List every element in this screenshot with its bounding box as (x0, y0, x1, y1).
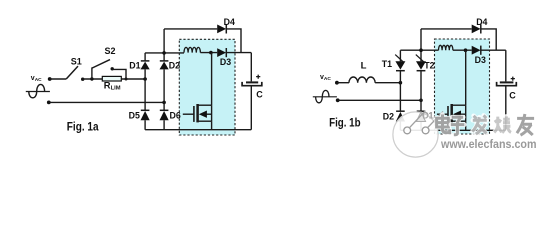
svg-text:S1: S1 (71, 56, 82, 66)
watermark url www.elecfans.com (440, 137, 537, 152)
wire: AC hot lead to switch S1 (50, 78, 66, 80)
watermark logo small circle right (422, 127, 429, 134)
svg-text:C: C (256, 89, 263, 99)
svg-text:T1: T1 (382, 59, 392, 69)
watermark logo big circle (393, 112, 438, 157)
svg-text:D1: D1 (129, 60, 140, 70)
label D2 (169, 61, 180, 71)
inductor (boost choke, 1a) (184, 47, 200, 52)
wire: S2 bypass return (112, 69, 127, 80)
wire: bottom rail (1a) (145, 129, 251, 131)
MOSFET Q2 (1b) (437, 104, 466, 122)
label D1 (1b) (422, 111, 433, 121)
svg-text:S2: S2 (105, 46, 116, 56)
node: leg2 top junction dot (162, 51, 166, 55)
label C (1b) (509, 91, 516, 101)
diode D1 (1b) (416, 111, 425, 121)
MOSFET Q1 (1a) (183, 104, 212, 122)
diode D2 (1b) (396, 111, 405, 121)
node: leg T1 AC junction dot (399, 81, 403, 85)
wire: leg T1 top to boost inductor line (1b) (400, 49, 438, 51)
wire: S1 to R_LIM (83, 78, 103, 80)
inductor (boost choke, 1b) (439, 45, 453, 50)
diode D6 (160, 110, 169, 120)
svg-text:D2: D2 (169, 61, 180, 71)
AC source sine symbol (1b) (313, 90, 337, 102)
label + (1b cap polarity) (511, 77, 515, 81)
resistor R_LIM (102, 76, 121, 81)
node: leg T2 AC junction dot (419, 99, 423, 103)
svg-text:D3: D3 (220, 57, 231, 67)
label D5 (129, 110, 140, 120)
wire: MOSFET source to bottom rail (1a) (211, 121, 213, 130)
wire: AC return terminal dot (1b) (336, 98, 340, 102)
svg-text:L: L (361, 61, 367, 72)
svg-text:T2: T2 (424, 60, 434, 70)
highlight box (boost cell) Fig 1b (435, 39, 490, 134)
wire: inductor to D3 (200, 52, 217, 54)
svg-text:vAC: vAC (320, 74, 331, 82)
inductor L (input choke) (349, 77, 375, 83)
label Fig. 1b (329, 116, 361, 129)
wire: AC return line to leg T2 (338, 99, 421, 101)
diode D4 (217, 24, 226, 33)
AC source sine symbol (1a) (26, 84, 50, 97)
wire: AC return line to leg2 (49, 101, 164, 103)
wire: bottom rail (1b) (400, 129, 505, 131)
label D4 (224, 17, 235, 27)
wire: D3 cathode to output node (226, 52, 251, 54)
ghost of diode D1 under watermark (416, 111, 433, 122)
capacitor C (1b) (497, 82, 517, 130)
label S2 (105, 46, 116, 56)
svg-text:D4: D4 (224, 17, 235, 27)
thyristor T2 (416, 55, 426, 71)
wire: boost choke to D3 (1b) (453, 49, 472, 51)
label D4 (1b) (476, 17, 487, 27)
wire: bridge leg2 vertical (163, 29, 165, 130)
label D3 (1b) (475, 55, 486, 65)
wire: leg T1 vertical (399, 50, 401, 130)
diode D3 (1b) (472, 46, 481, 55)
wire: L to leg T1 (375, 82, 400, 84)
svg-text:vAC: vAC (31, 75, 42, 83)
wire: bridge leg1 vertical (144, 53, 146, 130)
wire: S2 riser (91, 67, 93, 79)
label D3 (220, 57, 231, 67)
node: MOSFET drain tap dot (209, 51, 213, 55)
watermark logo diagonal right (428, 112, 443, 128)
label T2 (424, 60, 434, 70)
label T1 (382, 59, 392, 69)
wire: top rail (D4 branch) (164, 29, 241, 53)
diode D2 (160, 61, 169, 70)
wire: AC hot to inductor L (337, 82, 349, 84)
wire: top rail (1b) (421, 29, 496, 50)
watermark text 电 (437, 115, 450, 133)
node: AC hot terminal dot (1b) (335, 81, 339, 85)
AC source vAC label (1b) (320, 74, 331, 82)
label D2 (1b) (383, 112, 394, 122)
svg-text:C: C (509, 91, 516, 101)
watermark text 烧 (494, 116, 511, 132)
node: bridge AC1 junction dot (143, 77, 147, 81)
switch S1 (66, 66, 84, 81)
label R_LIM (104, 80, 121, 92)
wire: AC return terminal dot (1a) (47, 101, 51, 105)
wire: R_LIM to bridge leg1 (121, 78, 145, 80)
wire: output node down to capacitor (1b) (505, 50, 507, 81)
label L (361, 61, 367, 72)
wire: bridge + node to boost inductor line (145, 52, 184, 54)
node: AC hot terminal dot (1a) (48, 77, 52, 81)
watermark text 子 (451, 117, 465, 135)
wire: leg T2 vertical (420, 29, 422, 130)
node: bridge AC2 junction dot (162, 101, 166, 105)
node: S2 right contact (111, 67, 114, 70)
AC source vAC label (1a) (31, 75, 42, 83)
node: S2 tap junction (90, 77, 93, 80)
label D1 (129, 60, 140, 70)
diode D5 (141, 110, 150, 120)
watermark logo small circle left (404, 127, 411, 134)
svg-text:D5: D5 (129, 110, 140, 120)
label Fig. 1a (67, 120, 99, 133)
node: MOSFET drain tap dot (1b) (464, 48, 468, 52)
wire: MOSFET drain vertical (1b) (465, 50, 467, 105)
diode D3 (217, 48, 226, 57)
svg-text:D2: D2 (383, 112, 394, 122)
label D6 (170, 110, 181, 120)
capacitor C (1a) (242, 82, 262, 130)
svg-text:D3: D3 (475, 55, 486, 65)
watermark text 发 (472, 115, 486, 134)
svg-text:www.elecfans.com: www.elecfans.com (440, 137, 536, 151)
svg-text:D4: D4 (476, 17, 487, 27)
wire: MOSFET drain vertical (1a) (211, 53, 213, 106)
highlight box (boost cell) Fig 1a (179, 39, 235, 135)
svg-text:Fig. 1a: Fig. 1a (67, 120, 99, 133)
wire: MOSFET source to bottom rail (1b) (465, 121, 467, 130)
diode D1 (141, 61, 150, 70)
switch S2 blade (92, 60, 110, 68)
watermark logo diagonal left (410, 111, 426, 128)
thyristor T1 (395, 55, 405, 71)
watermark text 友 (517, 114, 534, 135)
svg-text:D6: D6 (170, 110, 181, 120)
label + (1a cap polarity) (256, 75, 260, 79)
label S1 (71, 56, 82, 66)
diode D4 (1b) (472, 24, 481, 33)
svg-text:Fig. 1b: Fig. 1b (329, 116, 361, 129)
node: leg T2 top junction dot (419, 48, 423, 52)
wire: D3 cathode to output node (1b) (481, 49, 506, 51)
label C (1a) (256, 89, 263, 99)
wire: output node down to capacitor (250, 53, 252, 82)
